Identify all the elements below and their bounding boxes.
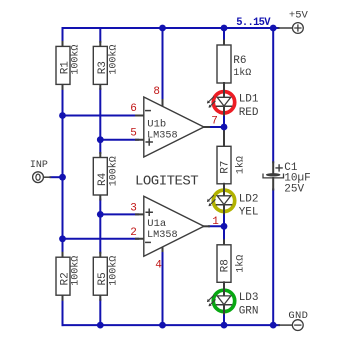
resistor R7 — [217, 127, 231, 196]
wire pin1 output to LED column — [209, 225, 224, 227]
svg-text:RED: RED — [239, 107, 259, 119]
op-amp U1b — [136, 97, 209, 157]
svg-text:LM358: LM358 — [147, 229, 178, 241]
svg-text:LM358: LM358 — [147, 130, 178, 142]
svg-text:1kΩ: 1kΩ — [235, 156, 247, 174]
svg-text:U1b: U1b — [147, 118, 166, 130]
svg-text:R5: R5 — [97, 272, 109, 285]
svg-text:R7: R7 — [220, 161, 232, 174]
wire pin6 net — [63, 115, 139, 117]
svg-text:100kΩ: 100kΩ — [70, 45, 82, 75]
terminal +5V — [279, 23, 304, 34]
junction node bottom pin4 — [159, 322, 166, 329]
svg-text:2: 2 — [130, 227, 137, 239]
junction node top right rail — [270, 25, 277, 32]
wire INP to node — [51, 176, 63, 178]
wire R3 top drop — [99, 28, 101, 42]
svg-text:100kΩ: 100kΩ — [107, 256, 119, 286]
wire top rail V+ — [63, 27, 279, 29]
svg-text:YEL: YEL — [239, 207, 259, 219]
LED LD1 emission arrows — [207, 97, 215, 108]
svg-text:100kΩ: 100kΩ — [107, 45, 119, 75]
resistor R8 — [217, 240, 231, 295]
LED LD3 emission arrows — [207, 296, 215, 307]
svg-text:LD2: LD2 — [239, 193, 259, 205]
wire LD2 cathode to node1 — [223, 213, 225, 226]
svg-text:R4: R4 — [97, 172, 109, 186]
junction node pin1 — [221, 223, 228, 230]
junction node bottom LD3 — [221, 322, 228, 329]
wire column B R4 bottom to R5 top — [99, 200, 101, 253]
svg-text:R3: R3 — [97, 61, 109, 74]
wire pin5 net — [100, 139, 138, 141]
junction node bottom R5 — [97, 322, 104, 329]
LED LD3 green ring — [213, 290, 234, 311]
svg-text:LD3: LD3 — [239, 292, 259, 304]
wire left drop to R1 — [62, 28, 64, 42]
terminal GND — [279, 320, 303, 331]
wire column B R5 bottom to bottom rail — [99, 300, 101, 325]
svg-text:GRN: GRN — [239, 306, 259, 318]
svg-text:1kΩ: 1kΩ — [233, 67, 251, 79]
svg-text:100kΩ: 100kΩ — [107, 156, 119, 186]
wire bottom rail GND — [63, 324, 280, 326]
junction node bottom right rail — [270, 322, 277, 329]
svg-text:25V: 25V — [284, 184, 304, 196]
resistor R1 — [56, 42, 70, 89]
resistor R2 — [56, 253, 70, 300]
junction node top R6 — [221, 25, 228, 32]
svg-text:LOGITEST: LOGITEST — [135, 174, 198, 190]
svg-text:R6: R6 — [233, 55, 246, 67]
svg-text:5..15V: 5..15V — [236, 17, 271, 29]
svg-text:GND: GND — [288, 310, 308, 322]
LED LD1 red ring — [213, 92, 234, 113]
wire column A R1 bottom to R2 top — [62, 89, 64, 253]
junction node pin2 — [59, 235, 66, 242]
wire C1 to bottom rail — [272, 190, 274, 326]
junction node pin5 — [97, 136, 104, 143]
svg-text:5: 5 — [130, 127, 137, 139]
svg-text:8: 8 — [153, 86, 160, 98]
svg-text:R2: R2 — [60, 272, 72, 285]
svg-text:4: 4 — [155, 259, 162, 271]
LED LD2 emission arrows — [207, 195, 215, 206]
wire right rail top to C1 — [272, 28, 274, 162]
wire pin7 output to LED column — [209, 126, 224, 128]
wire LD3 cathode to bottom rail — [223, 314, 225, 326]
svg-text:1kΩ: 1kΩ — [235, 255, 247, 273]
wire pin2 net — [63, 238, 139, 240]
capacitor C1 — [263, 162, 284, 189]
junction node INP — [59, 174, 66, 181]
junction node pin6 — [59, 112, 66, 119]
svg-text:R8: R8 — [220, 259, 232, 272]
wire pin8 V+ drop — [162, 28, 164, 100]
resistor R4 — [93, 153, 107, 200]
wire pin3 net — [100, 213, 138, 215]
svg-text:LD1: LD1 — [239, 94, 259, 106]
LED LD2 yellow ring — [213, 190, 234, 211]
svg-text:3: 3 — [130, 202, 137, 214]
svg-text:+5V: +5V — [289, 10, 309, 22]
LED LD1 diode symbol — [217, 83, 232, 115]
op-amp U1a — [136, 196, 209, 256]
wire column A R2 bottom to bottom rail — [62, 300, 64, 325]
svg-text:6: 6 — [130, 103, 137, 115]
wire LD1 cathode to node7 — [223, 115, 225, 127]
LED LD3 diode symbol — [217, 282, 232, 313]
terminal INP — [33, 172, 51, 183]
wire node7 to R7 — [223, 127, 225, 142]
junction node pin3 — [97, 211, 104, 218]
svg-text:R1: R1 — [60, 61, 72, 75]
junction node top pin8 — [159, 25, 166, 32]
wire node1 to R8 — [223, 226, 225, 240]
svg-text:100kΩ: 100kΩ — [70, 256, 82, 286]
svg-text:7: 7 — [211, 115, 218, 127]
LED LD2 diode symbol — [217, 184, 232, 214]
wire pin4 to bottom rail — [162, 251, 164, 325]
resistor R3 — [93, 42, 107, 89]
resistor R6 — [217, 41, 231, 98]
svg-text:1: 1 — [212, 216, 219, 228]
wire column B R3 bottom to R4 top — [99, 89, 101, 153]
wire R6 top drop — [223, 28, 225, 41]
resistor R5 — [93, 253, 107, 300]
junction node pin7 — [221, 124, 228, 131]
svg-text:INP: INP — [30, 160, 48, 171]
